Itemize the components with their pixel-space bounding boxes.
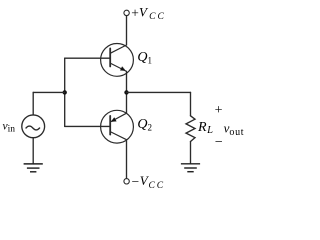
wire Q2 collector to -VCC <box>126 140 128 179</box>
wire output horizontal <box>127 91 191 93</box>
wire VCC top to Q1 collector <box>126 16 128 45</box>
ground input <box>24 164 43 172</box>
wire input horizontal <box>33 91 64 93</box>
svg-text:RL: RL <box>197 120 213 136</box>
wire Q2 base <box>65 125 111 127</box>
wire resistor to ground <box>190 142 192 164</box>
svg-text:−VCC: −VCC <box>132 173 166 191</box>
svg-text:−: − <box>215 135 223 150</box>
svg-text:Q1: Q1 <box>137 50 152 65</box>
wire down to resistor <box>190 92 192 115</box>
transistor Q1 <box>101 44 134 77</box>
wire vin top <box>32 92 34 115</box>
source vin <box>22 115 45 138</box>
wire vin bottom <box>32 138 34 164</box>
node input junction <box>62 90 66 94</box>
svg-text:Q2: Q2 <box>137 117 152 133</box>
ground output <box>181 164 200 172</box>
wire Q1 emitter to Q2 emitter <box>126 71 128 113</box>
transistor Q2 <box>101 110 134 143</box>
svg-text:vin: vin <box>3 121 16 135</box>
terminal +VCC <box>124 10 129 15</box>
node output junction <box>124 90 128 94</box>
svg-text:+: + <box>215 103 223 118</box>
wire base bus vertical <box>64 58 66 126</box>
wire Q1 base <box>65 57 111 59</box>
terminal -VCC <box>124 179 129 184</box>
svg-text:vout: vout <box>224 120 245 138</box>
sine wave <box>26 126 40 130</box>
resistor RL <box>186 116 195 142</box>
svg-text:+VCC: +VCC <box>131 4 166 22</box>
